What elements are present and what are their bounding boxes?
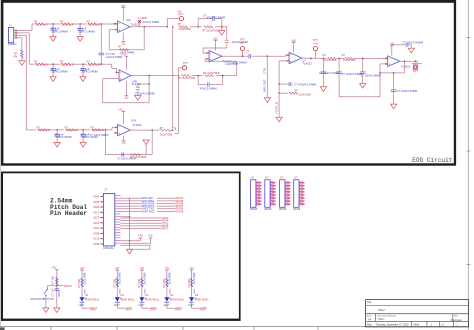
svg-text:2xCk7008: 2xCk7008 bbox=[324, 58, 337, 62]
svg-text:TP?: TP? bbox=[240, 38, 246, 42]
svg-text:CH-: CH- bbox=[178, 10, 183, 14]
svg-text:IO17: IO17 bbox=[93, 210, 99, 214]
svg-text:TL4322: TL4322 bbox=[302, 62, 312, 66]
svg-text:Title: Title bbox=[367, 301, 372, 304]
svg-text:2xCk7008: 2xCk7008 bbox=[88, 63, 101, 67]
svg-text:D5: D5 bbox=[195, 293, 199, 297]
svg-text:R?: R? bbox=[295, 89, 299, 93]
svg-text:U?: U? bbox=[280, 176, 284, 180]
svg-text:2xCk7008: 2xCk7008 bbox=[192, 272, 196, 284]
svg-text:IO09: IO09 bbox=[93, 231, 99, 235]
svg-text:+5V: +5V bbox=[139, 266, 144, 270]
svg-text:2xCk7008: 2xCk7008 bbox=[178, 27, 191, 31]
svg-text:WS2: WS2 bbox=[194, 288, 196, 294]
svg-text:2xCk7008: 2xCk7008 bbox=[343, 58, 356, 62]
svg-text:2xCk7008: 2xCk7008 bbox=[118, 272, 122, 284]
svg-text:C? 1uF: C? 1uF bbox=[50, 288, 54, 297]
svg-text:U?: U? bbox=[294, 176, 298, 180]
svg-text:2xCk7008: 2xCk7008 bbox=[299, 92, 311, 96]
svg-text:2xCk7008: 2xCk7008 bbox=[61, 22, 74, 26]
svg-text:R?: R? bbox=[342, 53, 346, 57]
svg-text:+5V: +5V bbox=[51, 266, 56, 270]
svg-text:EOG Circuit: EOG Circuit bbox=[412, 157, 453, 164]
svg-text:-5V: -5V bbox=[124, 96, 128, 100]
svg-text:LED MS1L: LED MS1L bbox=[122, 298, 135, 302]
svg-text:CH-: CH- bbox=[240, 41, 245, 45]
svg-text:R? 330: R? 330 bbox=[162, 278, 166, 287]
svg-text:RES8: RES8 bbox=[279, 207, 286, 211]
svg-text:-5V: -5V bbox=[121, 141, 125, 145]
svg-text:D4: D4 bbox=[170, 293, 174, 297]
svg-text:U1A: U1A bbox=[126, 18, 131, 22]
svg-text:LED MS1L: LED MS1L bbox=[196, 298, 209, 302]
svg-text:TP?: TP? bbox=[313, 38, 319, 42]
svg-text:C? 10uF/2.54MM: C? 10uF/2.54MM bbox=[397, 89, 417, 93]
svg-text:2xCk7008: 2xCk7008 bbox=[82, 272, 86, 284]
svg-text:CON20A: CON20A bbox=[103, 246, 114, 250]
svg-text:R? 330: R? 330 bbox=[77, 278, 81, 287]
svg-text:TL4322: TL4322 bbox=[130, 23, 139, 27]
svg-text:LED MS1L: LED MS1L bbox=[147, 298, 160, 302]
svg-text:IO11: IO11 bbox=[93, 237, 99, 241]
svg-text:IO10: IO10 bbox=[93, 226, 99, 230]
svg-text:2xCk7008: 2xCk7008 bbox=[142, 272, 146, 284]
svg-text:GPIO?: GPIO? bbox=[64, 284, 73, 288]
svg-text:1MMea: 1MMea bbox=[8, 42, 17, 46]
svg-text:2xCk7008: 2xCk7008 bbox=[160, 132, 173, 136]
svg-text:RES8: RES8 bbox=[293, 207, 300, 211]
svg-text:R? 2xCk7008: R? 2xCk7008 bbox=[178, 76, 195, 80]
svg-text:LED3: LED3 bbox=[150, 306, 157, 310]
svg-text:CH+: CH+ bbox=[313, 41, 319, 45]
svg-text:WS2: WS2 bbox=[169, 288, 171, 294]
svg-text:10uF/2.54MM: 10uF/2.54MM bbox=[51, 29, 67, 33]
svg-text:R? 10k: R? 10k bbox=[51, 275, 55, 284]
svg-text:IO03: IO03 bbox=[93, 200, 99, 204]
svg-text:D2: D2 bbox=[121, 293, 125, 297]
svg-text:C? 470pF/2.54MM: C? 470pF/2.54MM bbox=[294, 82, 316, 86]
svg-text:C? 10uF/2.54MM: C? 10uF/2.54MM bbox=[403, 40, 423, 44]
svg-text:IO02: IO02 bbox=[93, 195, 99, 199]
svg-text:BPF_OUT: BPF_OUT bbox=[262, 79, 266, 92]
svg-text:2xCk7008: 2xCk7008 bbox=[88, 22, 101, 26]
svg-text:10uF/2.54MM: 10uF/2.54MM bbox=[143, 20, 159, 24]
svg-text:+5V: +5V bbox=[164, 266, 169, 270]
svg-text:+5V: +5V bbox=[148, 233, 153, 237]
svg-text:C? 10uF/2.54MM: C? 10uF/2.54MM bbox=[342, 72, 362, 76]
svg-text:R? 330: R? 330 bbox=[187, 278, 191, 287]
svg-text:Sheet: Sheet bbox=[413, 324, 419, 327]
svg-text:IO27: IO27 bbox=[93, 216, 99, 220]
svg-text:IO05: IO05 bbox=[93, 242, 99, 246]
svg-text:2xCk7008: 2xCk7008 bbox=[66, 128, 79, 132]
svg-text:IO22: IO22 bbox=[93, 221, 99, 225]
svg-text:2xCk7008: 2xCk7008 bbox=[61, 63, 74, 67]
svg-text:SW-PUSHBUTTON: SW-PUSHBUTTON bbox=[30, 297, 53, 301]
svg-text:RES8: RES8 bbox=[265, 207, 272, 211]
svg-text:10uF/2.54MM: 10uF/2.54MM bbox=[106, 55, 122, 59]
svg-text:R?: R? bbox=[178, 22, 182, 26]
svg-text:<Title>: <Title> bbox=[377, 308, 386, 312]
svg-text:Date:: Date: bbox=[367, 324, 373, 327]
svg-text:R? 2xCk7008: R? 2xCk7008 bbox=[202, 28, 219, 32]
svg-text:TP?: TP? bbox=[183, 61, 189, 65]
svg-text:4.5V: 4.5V bbox=[138, 233, 144, 237]
svg-text:IO04: IO04 bbox=[93, 205, 99, 209]
svg-text:2xCk7008: 2xCk7008 bbox=[92, 128, 105, 132]
svg-text:10uF: 10uF bbox=[57, 290, 61, 296]
svg-text:10uF/2.54MM: 10uF/2.54MM bbox=[78, 29, 94, 33]
svg-text:Thursday, September 17, 2020: Thursday, September 17, 2020 bbox=[376, 324, 409, 327]
svg-text:R?: R? bbox=[323, 53, 327, 57]
svg-text:+5V: +5V bbox=[115, 266, 120, 270]
svg-text:Document Number: Document Number bbox=[378, 314, 397, 317]
svg-text:-5V: -5V bbox=[121, 42, 125, 46]
svg-text:R? 330: R? 330 bbox=[137, 278, 141, 287]
svg-text:LED5: LED5 bbox=[200, 306, 207, 310]
svg-text:LED2: LED2 bbox=[125, 306, 132, 310]
svg-text:TP?: TP? bbox=[413, 70, 419, 74]
svg-text:LED MS1L: LED MS1L bbox=[172, 298, 185, 302]
svg-text:C?: C? bbox=[246, 50, 250, 54]
svg-text:47k: 47k bbox=[13, 54, 18, 58]
svg-text:+5V: +5V bbox=[189, 266, 194, 270]
svg-text:+5V: +5V bbox=[213, 36, 218, 40]
svg-text:10uF/2.54MM: 10uF/2.54MM bbox=[51, 70, 67, 74]
svg-text:+5V: +5V bbox=[118, 107, 123, 111]
svg-text:LED4: LED4 bbox=[175, 306, 182, 310]
svg-text:GPIO9: GPIO9 bbox=[175, 209, 184, 213]
svg-text:LED MS1L: LED MS1L bbox=[87, 298, 100, 302]
svg-text:<RevCode>: <RevCode> bbox=[450, 319, 463, 322]
svg-text:D3: D3 bbox=[145, 293, 149, 297]
svg-text:TL4322: TL4322 bbox=[133, 123, 143, 127]
svg-text:U?: U? bbox=[265, 176, 269, 180]
svg-text:INSTR_IN: INSTR_IN bbox=[274, 102, 278, 114]
svg-text:U?: U? bbox=[251, 176, 255, 180]
svg-text:U?A: U?A bbox=[131, 118, 137, 122]
svg-text:+5V: +5V bbox=[291, 38, 296, 42]
svg-text:+5V: +5V bbox=[121, 4, 126, 8]
svg-text:2xCk7008: 2xCk7008 bbox=[35, 22, 48, 26]
svg-text:2xCk7008: 2xCk7008 bbox=[167, 272, 171, 284]
svg-text:TL4322: TL4322 bbox=[401, 64, 411, 68]
svg-text:LED1: LED1 bbox=[90, 306, 97, 310]
svg-text:RES8: RES8 bbox=[250, 207, 257, 211]
svg-text:GP27: GP27 bbox=[162, 227, 169, 231]
svg-text:2xCk7008: 2xCk7008 bbox=[225, 62, 237, 66]
svg-text:C? 10pF/2.54MM: C? 10pF/2.54MM bbox=[134, 92, 154, 96]
svg-text:WS2: WS2 bbox=[84, 288, 86, 294]
svg-text:47uF/2.54MM: 47uF/2.54MM bbox=[200, 86, 218, 90]
svg-text:R? 2xCk7008: R? 2xCk7008 bbox=[203, 71, 220, 75]
svg-text:Pin Header: Pin Header bbox=[50, 210, 87, 217]
svg-text:D1: D1 bbox=[85, 293, 89, 297]
svg-text:R?: R? bbox=[118, 45, 122, 49]
svg-text:R? 330: R? 330 bbox=[113, 278, 117, 287]
svg-text:<Doc>: <Doc> bbox=[378, 318, 386, 321]
svg-text:470pF/2.54MM: 470pF/2.54MM bbox=[207, 15, 226, 19]
svg-text:10uF/2.54MM: 10uF/2.54MM bbox=[81, 70, 97, 74]
svg-text:2xCk7008: 2xCk7008 bbox=[38, 128, 51, 132]
svg-text:C? DNP: C? DNP bbox=[138, 16, 148, 20]
svg-text:WS2: WS2 bbox=[120, 288, 122, 294]
svg-text:C? 10uF/2.54MM: C? 10uF/2.54MM bbox=[360, 73, 380, 77]
svg-text:C?R: C?R bbox=[262, 68, 266, 73]
svg-text:10uF/2.54MM: 10uF/2.54MM bbox=[55, 135, 71, 139]
svg-text:R? 2xCk7008: R? 2xCk7008 bbox=[130, 155, 147, 159]
svg-text:UART RXD: UART RXD bbox=[141, 209, 154, 213]
svg-text:WS2: WS2 bbox=[144, 288, 146, 294]
svg-text:+5V: +5V bbox=[80, 266, 85, 270]
svg-text:2xCk7008: 2xCk7008 bbox=[35, 63, 48, 67]
svg-text:C? 1uF/2.54MM: C? 1uF/2.54MM bbox=[90, 133, 109, 137]
